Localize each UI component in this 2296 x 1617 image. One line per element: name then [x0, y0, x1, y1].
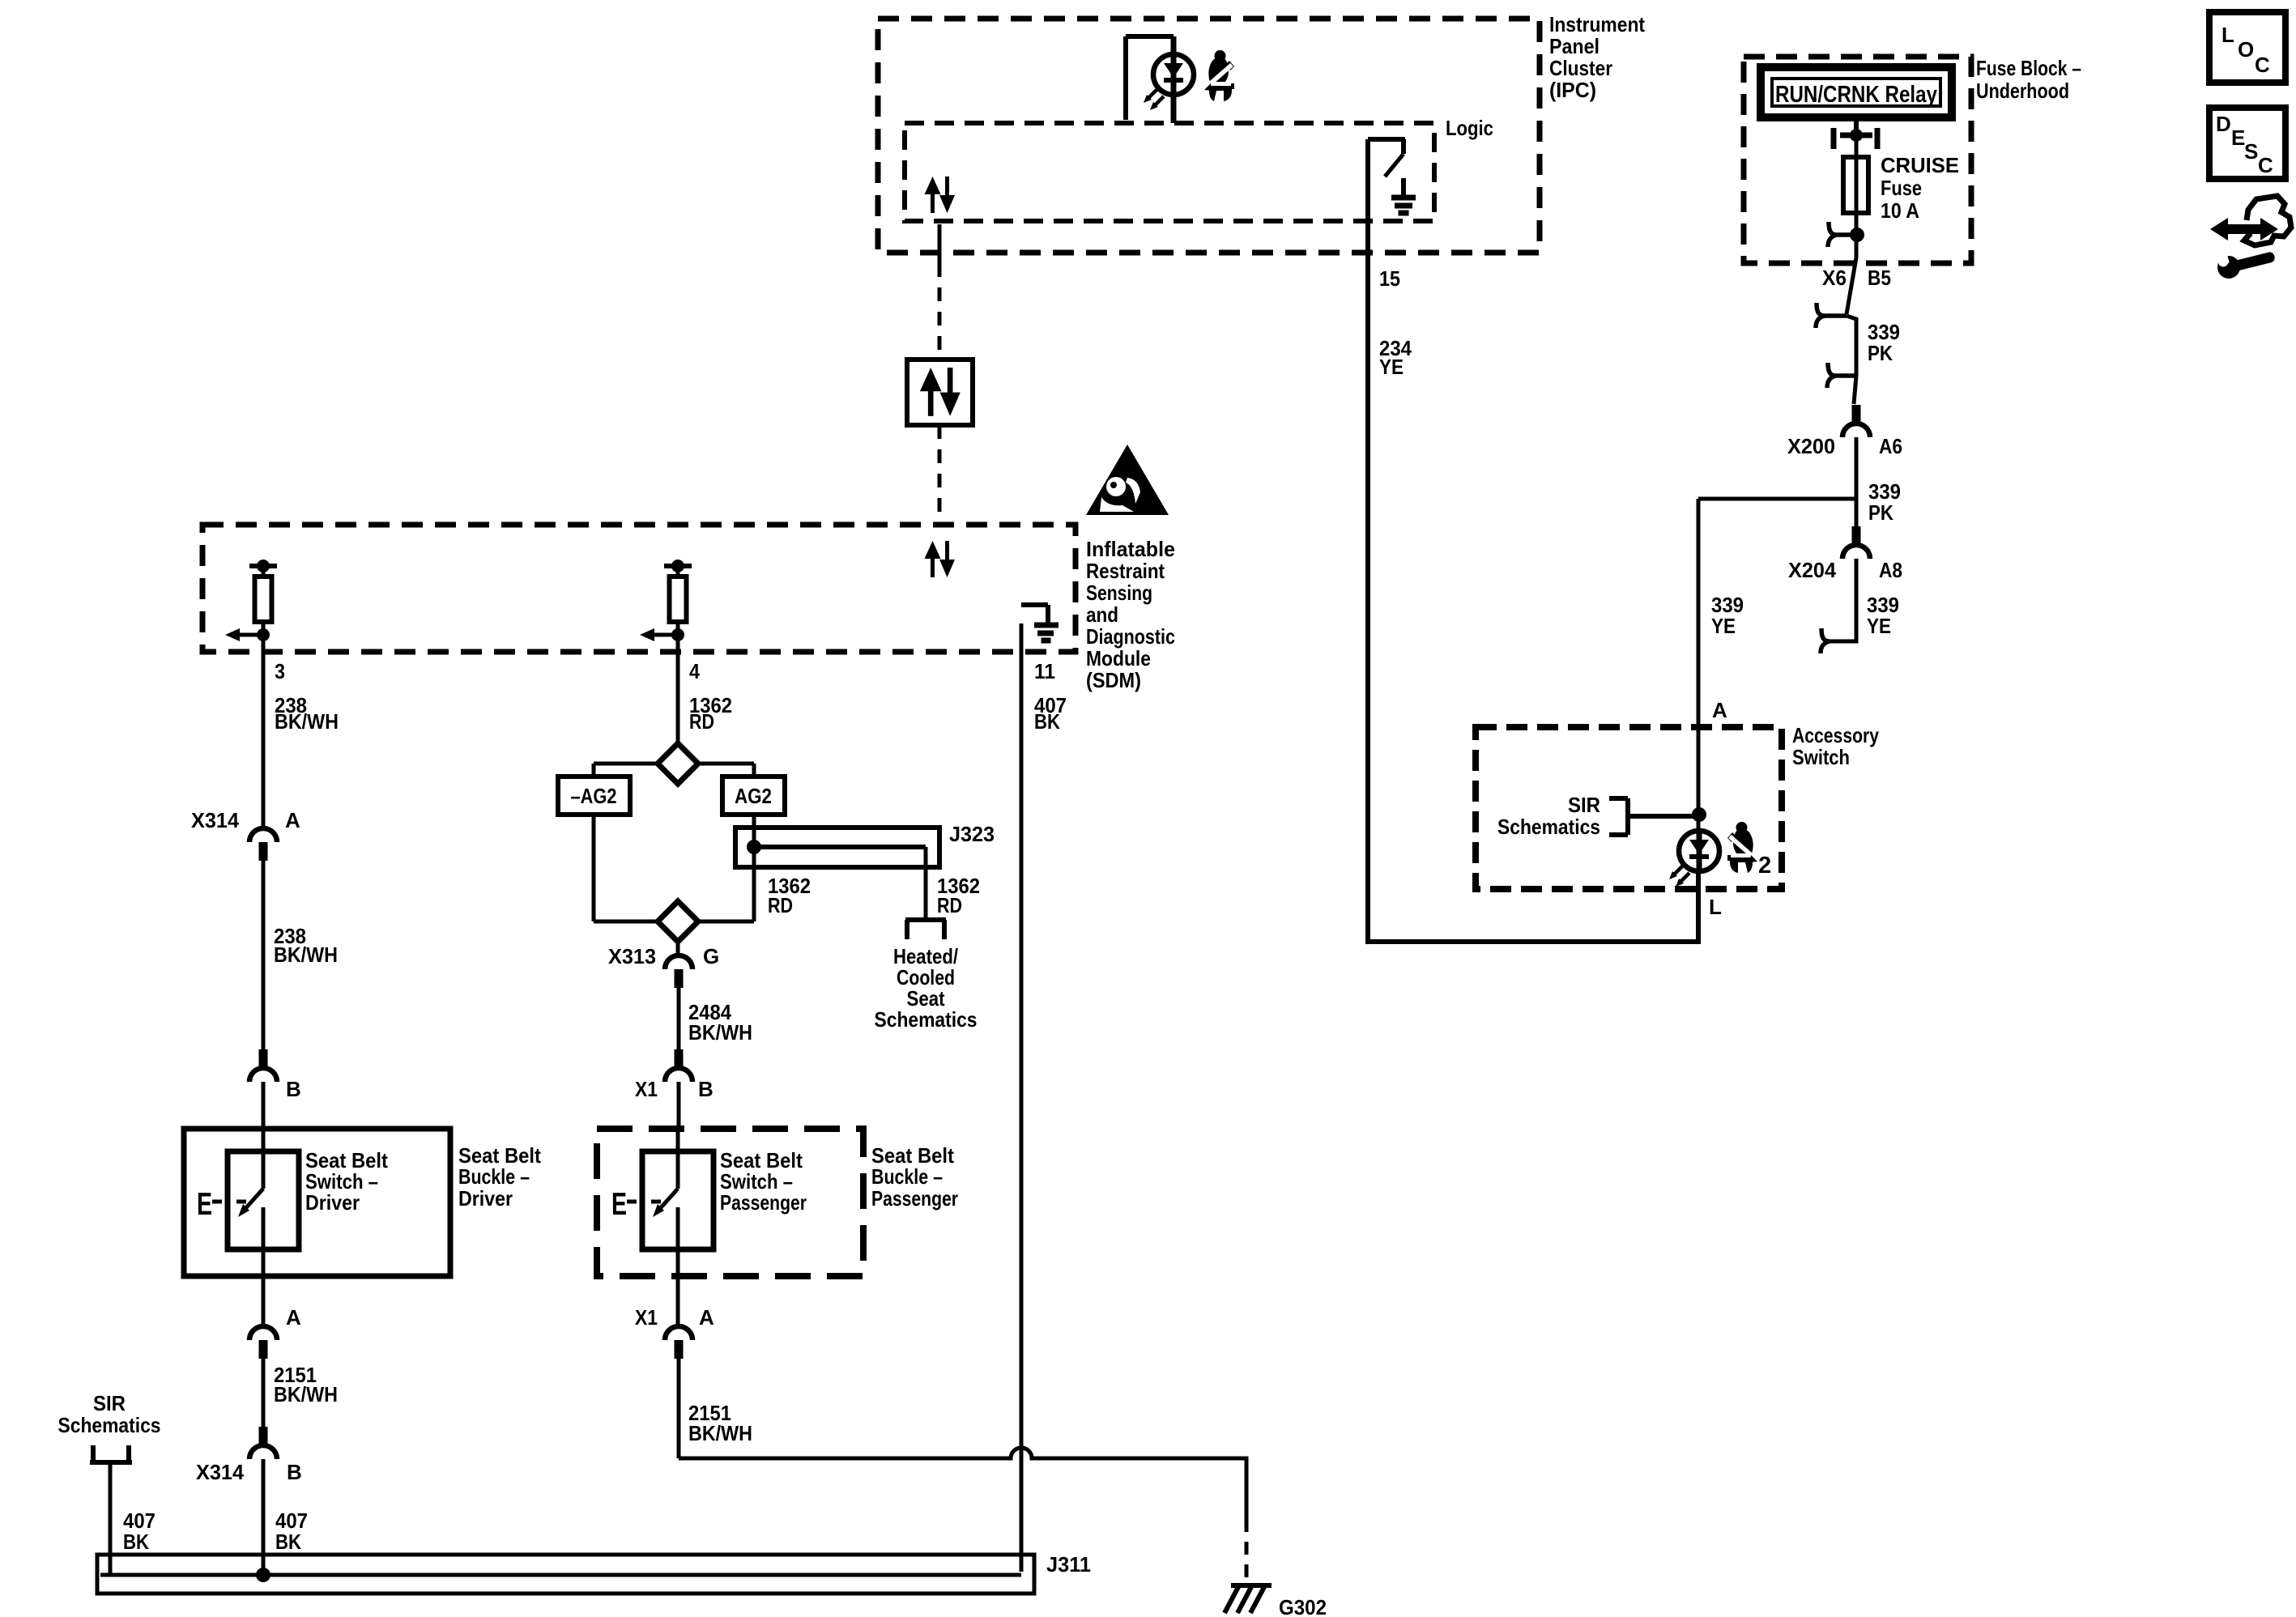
svg-text:Passenger: Passenger — [720, 1190, 807, 1215]
svg-text:RD: RD — [937, 893, 962, 917]
svg-text:PK: PK — [1868, 500, 1893, 525]
svg-text:BK/WH: BK/WH — [274, 943, 338, 967]
svg-text:15: 15 — [1379, 266, 1400, 291]
svg-text:Sensing: Sensing — [1086, 581, 1152, 605]
svg-text:Buckle –: Buckle – — [458, 1164, 530, 1189]
svg-text:–AG2: –AG2 — [571, 784, 617, 808]
svg-text:G: G — [703, 944, 719, 968]
svg-text:O: O — [2238, 37, 2254, 62]
svg-text:BK: BK — [1034, 709, 1060, 734]
svg-text:J311: J311 — [1046, 1552, 1091, 1577]
svg-text:Passenger: Passenger — [871, 1186, 958, 1211]
svg-text:Fuse: Fuse — [1881, 176, 1922, 200]
svg-text:(SDM): (SDM) — [1086, 668, 1141, 692]
svg-text:BK/WH: BK/WH — [688, 1020, 752, 1045]
svg-text:BK/WH: BK/WH — [274, 1382, 338, 1406]
svg-text:Inflatable: Inflatable — [1086, 537, 1175, 561]
svg-text:Instrument: Instrument — [1549, 12, 1645, 36]
svg-text:D: D — [2216, 112, 2231, 136]
svg-text:Diagnostic: Diagnostic — [1086, 624, 1175, 649]
svg-text:Schematics: Schematics — [875, 1007, 978, 1032]
svg-text:PK: PK — [1868, 341, 1893, 365]
svg-text:Underhood: Underhood — [1976, 79, 2069, 103]
svg-text:L: L — [1709, 895, 1722, 919]
svg-text:C: C — [2258, 153, 2273, 177]
svg-text:B: B — [287, 1460, 302, 1484]
svg-text:CRUISE: CRUISE — [1881, 153, 1959, 177]
svg-text:Buckle –: Buckle – — [871, 1164, 943, 1189]
svg-text:YE: YE — [1379, 355, 1404, 379]
svg-text:Switch: Switch — [1792, 745, 1850, 769]
svg-text:Cluster: Cluster — [1549, 56, 1612, 80]
svg-text:B: B — [286, 1077, 301, 1101]
svg-text:X314: X314 — [196, 1460, 245, 1484]
svg-text:SIR: SIR — [93, 1391, 126, 1415]
svg-text:Module: Module — [1086, 646, 1151, 670]
svg-text:X314: X314 — [191, 808, 240, 832]
svg-text:2: 2 — [1758, 853, 1771, 879]
svg-text:A8: A8 — [1879, 558, 1902, 582]
svg-text:Restraint: Restraint — [1086, 559, 1165, 583]
svg-text:Driver: Driver — [458, 1186, 513, 1211]
svg-text:X200: X200 — [1787, 434, 1835, 458]
svg-text:BK: BK — [123, 1530, 149, 1554]
svg-text:10 A: 10 A — [1881, 198, 1919, 223]
svg-text:and: and — [1086, 602, 1118, 627]
svg-text:BK/WH: BK/WH — [688, 1421, 752, 1445]
svg-text:SIR: SIR — [1568, 793, 1600, 817]
svg-text:3: 3 — [275, 659, 285, 683]
svg-text:RD: RD — [689, 709, 714, 734]
svg-text:BK: BK — [275, 1530, 301, 1554]
svg-text:B5: B5 — [1868, 266, 1891, 290]
svg-text:L: L — [2221, 23, 2234, 47]
svg-text:BK/WH: BK/WH — [275, 709, 339, 734]
svg-text:S: S — [2244, 139, 2258, 164]
svg-text:Logic: Logic — [1446, 116, 1493, 140]
svg-text:A: A — [699, 1305, 714, 1330]
svg-text:11: 11 — [1034, 659, 1055, 683]
svg-text:C: C — [2255, 53, 2270, 77]
svg-text:J323: J323 — [949, 822, 995, 846]
svg-text:A: A — [286, 1305, 301, 1330]
svg-text:RD: RD — [768, 893, 793, 917]
svg-text:G302: G302 — [1279, 1595, 1327, 1617]
svg-text:B: B — [698, 1077, 714, 1101]
svg-text:YE: YE — [1711, 614, 1736, 638]
svg-text:Driver: Driver — [305, 1190, 360, 1215]
svg-text:X204: X204 — [1788, 558, 1837, 582]
svg-text:A: A — [1712, 698, 1727, 722]
svg-text:YE: YE — [1867, 614, 1891, 638]
svg-text:A: A — [285, 808, 300, 832]
svg-text:E: E — [2231, 126, 2245, 150]
svg-text:Panel: Panel — [1549, 34, 1600, 58]
svg-text:AG2: AG2 — [735, 784, 772, 808]
svg-text:X313: X313 — [608, 944, 656, 968]
svg-text:4: 4 — [689, 659, 700, 683]
svg-text:A6: A6 — [1879, 434, 1902, 458]
svg-text:X1: X1 — [635, 1077, 658, 1101]
svg-text:RUN/CRNK Relay: RUN/CRNK Relay — [1775, 82, 1937, 108]
svg-text:E: E — [611, 1187, 627, 1222]
svg-text:Schematics: Schematics — [1497, 815, 1600, 839]
svg-text:Accessory: Accessory — [1792, 723, 1879, 747]
svg-text:Fuse Block –: Fuse Block – — [1976, 56, 2081, 80]
svg-text:(IPC): (IPC) — [1549, 78, 1596, 102]
svg-text:X1: X1 — [635, 1305, 658, 1330]
svg-text:E: E — [197, 1187, 212, 1222]
svg-text:X6: X6 — [1822, 266, 1847, 290]
svg-text:Schematics: Schematics — [58, 1413, 161, 1437]
